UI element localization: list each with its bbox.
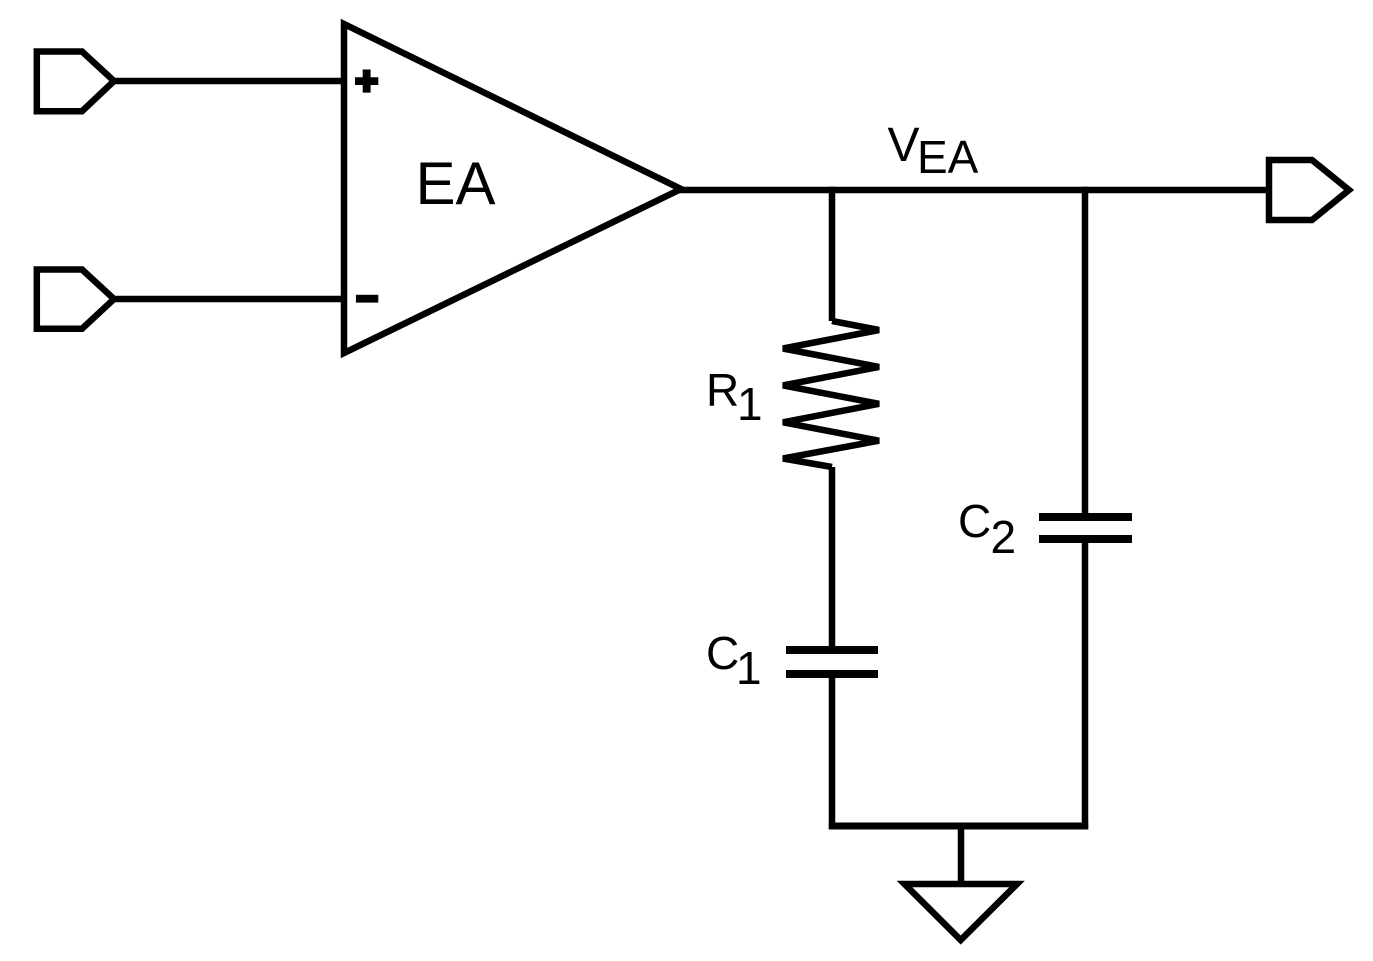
- wire C2 to bottom rail: [1082, 539, 1089, 829]
- op-amp U1 EA triangle: [344, 24, 681, 353]
- svg-text:1: 1: [736, 642, 762, 694]
- svg-text:EA: EA: [917, 131, 979, 183]
- wire T1 to + input: [114, 78, 347, 85]
- output terminal T3 (right pentagon): [1269, 160, 1349, 220]
- wire R1 to C1: [829, 467, 836, 652]
- plus symbol (noninverting input): [355, 70, 378, 93]
- svg-text:R: R: [706, 364, 739, 416]
- bottom rail wire: [829, 823, 1088, 830]
- resistor R1 zigzag: [783, 321, 879, 467]
- wire T2 to - input: [114, 296, 347, 303]
- svg-text:V: V: [888, 119, 920, 172]
- svg-text:C: C: [706, 627, 739, 679]
- ground stem wire: [958, 826, 965, 884]
- minus symbol (inverting input): [356, 295, 378, 303]
- input terminal T2 (bottom pentagon): [37, 270, 114, 329]
- wire C1 to bottom rail: [829, 674, 836, 829]
- wire node VEA down to C2: [1082, 187, 1089, 519]
- capacitor C1 plates: [786, 646, 878, 654]
- ground symbol: [905, 884, 1018, 940]
- svg-text:C: C: [958, 495, 991, 547]
- svg-text:EA: EA: [416, 150, 496, 217]
- svg-text:2: 2: [991, 511, 1017, 563]
- svg-text:1: 1: [737, 378, 763, 430]
- capacitor C2 plates: [1039, 513, 1132, 521]
- wire op-amp output to node VEA and output terminal: [678, 187, 1269, 194]
- wire node VEA down to R1: [829, 187, 836, 321]
- input terminal T1 (top pentagon): [37, 52, 114, 112]
